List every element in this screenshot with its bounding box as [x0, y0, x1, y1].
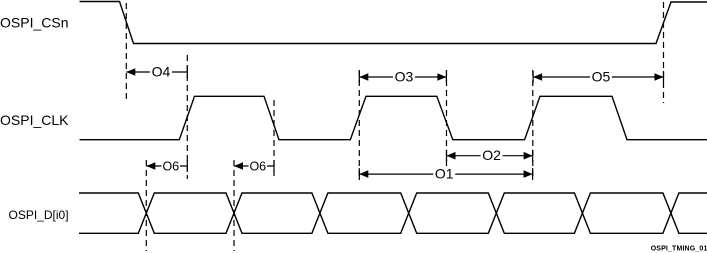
dimension O4 arrow: [126, 64, 187, 80]
node dashed guide at CLK rise 1: [186, 55, 188, 179]
node dashed guide at CLK rise 3: [532, 70, 534, 178]
svg-text:O4: O4: [152, 64, 171, 80]
node dashed guide at CLK fall 1: [273, 100, 275, 178]
dimension O5 arrow: [533, 69, 663, 85]
node dashed guide at data crossover 2: [233, 160, 235, 251]
svg-text:OSPI_CLK: OSPI_CLK: [0, 112, 69, 128]
svg-text:O1: O1: [435, 166, 454, 182]
svg-text:OSPI_TMING_01: OSPI_TMING_01: [651, 246, 707, 253]
dimension O1 arrow: [359, 166, 532, 182]
wire OSPI_D data bus trace: [79, 193, 707, 233]
svg-text:O3: O3: [395, 69, 414, 85]
wire OSPI_CLK trace: [80, 96, 707, 139]
svg-text:O2: O2: [482, 147, 501, 163]
dimension O2 arrow: [447, 147, 533, 163]
node dashed guide at CSn fall: [125, 3, 127, 101]
dimension O6 arrow second: [234, 159, 274, 173]
dimension O6 arrow first: [146, 159, 187, 173]
node dashed guide at data crossover 1: [145, 160, 147, 251]
svg-text:OSPI_CSn: OSPI_CSn: [0, 15, 68, 31]
node dashed guide at CLK rise 2: [358, 70, 360, 178]
node dashed guide at CLK fall 2: [446, 70, 448, 178]
svg-text:O6: O6: [249, 159, 266, 173]
svg-text:O6: O6: [162, 159, 179, 173]
node dashed guide at CSn rise: [663, 2, 665, 103]
svg-text:O5: O5: [592, 69, 611, 85]
svg-text:OSPI_D[i0]: OSPI_D[i0]: [9, 208, 69, 222]
dimension O3 arrow: [359, 69, 446, 85]
wire OSPI_CSn trace: [80, 2, 707, 44]
